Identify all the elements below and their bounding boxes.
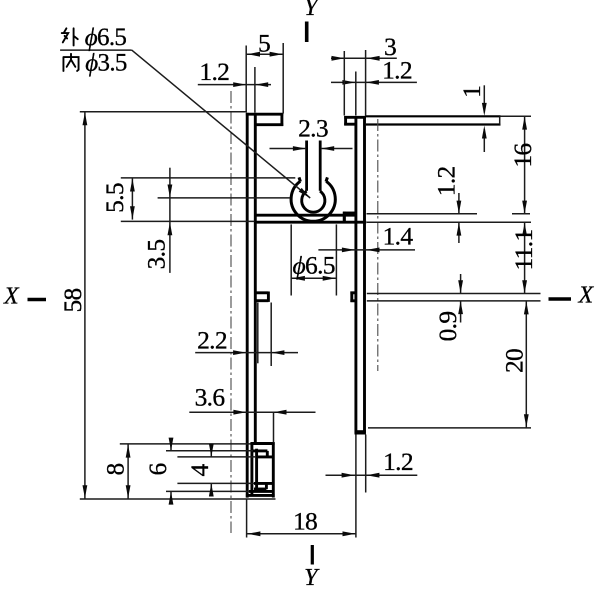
- svg-text:1.2: 1.2: [199, 57, 229, 86]
- svg-text:11.1: 11.1: [509, 230, 538, 271]
- svg-text:X: X: [578, 283, 595, 309]
- svg-text:1.4: 1.4: [383, 222, 414, 251]
- svg-text:ϕ6.5: ϕ6.5: [293, 251, 335, 280]
- svg-text:3.6: 3.6: [195, 383, 225, 412]
- svg-text:58: 58: [58, 288, 87, 312]
- svg-text:5: 5: [258, 29, 270, 58]
- svg-text:X: X: [3, 284, 20, 310]
- svg-text:2.3: 2.3: [298, 114, 328, 143]
- svg-text:6: 6: [143, 463, 172, 475]
- svg-text:1.2: 1.2: [383, 447, 413, 476]
- svg-text:16: 16: [508, 144, 537, 168]
- svg-text:4: 4: [185, 464, 214, 477]
- svg-text:ϕ3.5: ϕ3.5: [85, 49, 127, 76]
- svg-text:20: 20: [499, 349, 528, 373]
- svg-text:1: 1: [457, 86, 486, 98]
- svg-text:1.2: 1.2: [382, 56, 412, 85]
- svg-text:0.9: 0.9: [433, 312, 462, 342]
- svg-text:3.5: 3.5: [142, 240, 171, 270]
- svg-text:18: 18: [293, 507, 317, 536]
- svg-text:ϕ6.5: ϕ6.5: [85, 24, 127, 51]
- svg-text:5.5: 5.5: [100, 183, 129, 213]
- svg-text:8: 8: [101, 463, 130, 475]
- svg-text:1.2: 1.2: [432, 166, 461, 196]
- svg-text:2.2: 2.2: [197, 326, 227, 355]
